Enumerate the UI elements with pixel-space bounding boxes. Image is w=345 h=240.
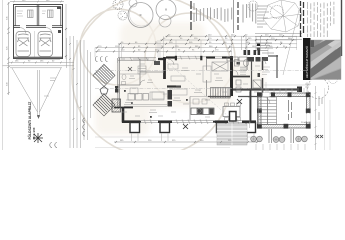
stove dark mark bbox=[154, 61, 160, 65]
sheet edge line bbox=[2, 0, 4, 150]
building left wall bbox=[118, 58, 120, 108]
chairs bbox=[225, 103, 241, 121]
parking divider bbox=[34, 31, 36, 57]
garden stairs bbox=[259, 97, 277, 125]
small dark mark living bbox=[183, 124, 188, 129]
small dark dots bbox=[124, 90, 188, 118]
right rooms bottom wall bbox=[233, 88, 302, 90]
ramp dimension ticks bbox=[11, 62, 62, 64]
stair diamond 1 bbox=[93, 64, 115, 87]
top dimension lines bbox=[95, 36, 297, 51]
living room furniture bbox=[150, 66, 211, 100]
car 2 bbox=[38, 32, 53, 57]
tree centers bbox=[140, 9, 168, 17]
legend D dark mark bbox=[257, 44, 260, 47]
right mid small marks bbox=[305, 84, 311, 87]
terrace grey bbox=[217, 124, 247, 146]
annex room text bbox=[289, 100, 292, 120]
arc ticks group2 bbox=[50, 118, 85, 148]
bottom dimension line bbox=[114, 141, 258, 143]
living room top wall bbox=[166, 57, 232, 59]
annex left dim line bbox=[249, 92, 251, 128]
legend D rows bbox=[256, 43, 274, 53]
dotted tree small right bbox=[329, 75, 338, 84]
stippled circle right bbox=[248, 1, 258, 11]
room partition small bbox=[119, 73, 140, 75]
interior partition mid bbox=[189, 97, 191, 121]
left dimension numbers bbox=[7, 16, 9, 86]
wardrobe bbox=[212, 62, 228, 71]
garage middle wall bbox=[14, 26, 63, 28]
bottom faint line bbox=[95, 147, 230, 149]
watermark circles bbox=[72, 0, 235, 156]
right rooms top wall bbox=[227, 57, 268, 62]
paper background bbox=[0, 0, 345, 150]
title block bold text column bbox=[301, 1, 304, 37]
shrub boxes bbox=[269, 129, 294, 143]
sheet border right bbox=[341, 0, 343, 56]
building right wall lower bbox=[250, 90, 252, 122]
kitchen counter bbox=[191, 108, 214, 115]
interior fixtures left section bbox=[130, 66, 164, 99]
wind rose octagon bbox=[263, 0, 302, 75]
legend vertical title bbox=[237, 2, 239, 30]
garage room fixtures right bbox=[48, 10, 54, 18]
hatched corner block bbox=[112, 99, 121, 112]
second faint vertical bbox=[324, 88, 326, 150]
right rotated text dashes bbox=[319, 96, 322, 120]
annex door gaps bbox=[263, 93, 270, 97]
living room diagonal bbox=[167, 62, 228, 116]
ramp diagonals bbox=[12, 68, 61, 117]
small dark mark right bbox=[237, 99, 242, 104]
bedroom partition bbox=[206, 58, 208, 96]
kitchen dark fixtures bbox=[198, 109, 214, 115]
legend table lines bbox=[255, 34, 302, 40]
photo bbox=[311, 40, 342, 80]
door jamb piers bbox=[244, 50, 261, 55]
ramp tiny notes bbox=[44, 78, 56, 96]
garage dark corner mark bbox=[57, 7, 61, 10]
dimension verticals bbox=[95, 36, 297, 58]
pier 4 bbox=[246, 123, 256, 133]
north arrow mark bbox=[128, 67, 132, 71]
wall chunk at bay bbox=[115, 86, 119, 93]
pier 3 bbox=[217, 123, 227, 133]
svg-text:20 db tuja: 20 db tuja bbox=[301, 121, 311, 124]
ramp arrow bbox=[37, 115, 40, 119]
top dimension ticks bbox=[96, 35, 294, 52]
stair diamond 2 bbox=[93, 94, 115, 117]
top wall window hatch ticks bbox=[130, 56, 197, 61]
bottom wall segments bbox=[122, 120, 256, 123]
garage top ticks bbox=[10, 1, 64, 3]
garage room fixtures left bbox=[28, 10, 34, 18]
center thick wall bbox=[230, 56, 233, 96]
garage outer walls bbox=[14, 5, 63, 59]
shrub circles row bbox=[251, 136, 308, 142]
bed bbox=[211, 88, 231, 99]
main building top wall left bbox=[118, 58, 166, 60]
far right faint line bbox=[329, 100, 331, 150]
annex right wall bbox=[307, 93, 311, 128]
annex left wall bbox=[258, 93, 262, 128]
annex top wall bbox=[258, 93, 311, 97]
interior partition left section bbox=[118, 59, 164, 85]
dashed tree circle right bbox=[308, 78, 329, 99]
hall partition bbox=[190, 96, 208, 98]
vertical dimension bundle bbox=[67, 36, 91, 148]
title bar black bbox=[303, 38, 311, 80]
paper tint patches bbox=[95, 22, 265, 135]
legend C rows bbox=[257, 6, 269, 27]
title block light text columns bbox=[308, 2, 334, 37]
pier 1 bbox=[130, 123, 140, 133]
bath partition bbox=[246, 57, 248, 70]
top dimension numbers bbox=[98, 34, 292, 51]
legend divider bbox=[233, 0, 235, 33]
cabinet row bbox=[128, 94, 149, 101]
tree tiny 2 bbox=[129, 0, 137, 7]
small room text rows bbox=[262, 67, 270, 75]
living room west wall bbox=[163, 57, 166, 79]
stippled circle in rose bbox=[271, 6, 284, 19]
vertical text col left of legend bbox=[190, 1, 192, 30]
vertical bundle ticks bbox=[69, 43, 85, 130]
section line horizontal 1 bbox=[95, 70, 308, 72]
dining table bbox=[223, 107, 240, 117]
pier footing lines bbox=[132, 133, 255, 141]
kitchen wall chunk bbox=[168, 90, 173, 107]
door jambs living top bbox=[175, 56, 177, 61]
garage partition wall bbox=[36, 5, 38, 26]
tree dotted 2 bbox=[118, 11, 127, 20]
left dimension line bbox=[7, 2, 10, 95]
pier 2 bbox=[160, 123, 170, 133]
title text FOLDSZINTI ALAPRAJZ bbox=[28, 102, 36, 140]
bath wall bbox=[233, 76, 250, 78]
tree large bbox=[128, 3, 153, 28]
dark block left of annex bbox=[230, 112, 237, 122]
annex bottom wall bbox=[258, 125, 311, 129]
bottom wall windows bbox=[140, 120, 242, 124]
hall wall chunk bbox=[167, 85, 181, 87]
svg-text:M=1:100: M=1:100 bbox=[32, 127, 36, 139]
bedroom bottom wall bbox=[208, 96, 262, 98]
legend B rows bbox=[243, 4, 256, 24]
interior tiny text marks bbox=[122, 64, 260, 117]
small room walls right bbox=[252, 55, 279, 90]
bottom-left vertical wall bbox=[122, 107, 125, 123]
legend A rows bbox=[197, 8, 232, 23]
ramp top lines bbox=[3, 62, 75, 68]
tree medium bbox=[156, 0, 176, 20]
annex piers bbox=[257, 92, 311, 128]
car 1 bbox=[16, 32, 31, 57]
extra dim line mid-bottom bbox=[95, 136, 258, 138]
plant symbol bbox=[33, 133, 43, 143]
section line horizontal 2 bbox=[95, 88, 250, 90]
garage door lines bbox=[14, 56, 63, 58]
corridor double line bbox=[124, 105, 167, 107]
arc ticks group1 bbox=[95, 57, 107, 62]
annex right dim line bbox=[315, 86, 317, 150]
tree dotted 1 bbox=[113, 0, 123, 10]
terrace upper ticks bbox=[262, 88, 304, 93]
title bar text bbox=[304, 46, 309, 78]
annex upper connectors bbox=[263, 82, 310, 93]
stair pentagon bbox=[100, 87, 108, 95]
door arcs bbox=[140, 59, 266, 85]
tree small bbox=[159, 15, 171, 27]
bath fixtures bbox=[235, 60, 262, 93]
bottom-left step wall bbox=[114, 107, 133, 109]
small fixtures mid bbox=[168, 64, 207, 113]
